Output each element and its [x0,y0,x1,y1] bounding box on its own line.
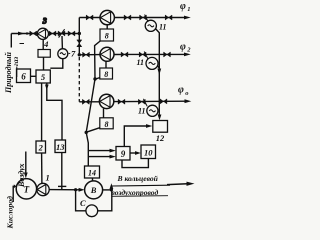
label phi2 [180,41,191,53]
underline воздухопровод [112,195,169,198]
small tick arrow [27,32,31,35]
box 14 [85,166,100,178]
blower branch3 [99,94,113,108]
arrow box9 to box10 [130,152,136,154]
box 8 branch3 [100,118,113,129]
trunk vertical upper (solid) [78,18,80,56]
junction dot main/trunk [78,32,81,35]
svg-text:В: В [90,185,97,195]
blower branch1 [100,10,114,24]
junction dot for recirc [74,188,77,191]
svg-text:11: 11 [138,107,146,116]
junction dot collector/box8-2 [93,77,96,80]
valve bowtie branch3 mid [118,99,125,104]
outlet thick arrow [167,183,188,186]
wire box5 down-left to box2 [41,83,43,141]
valve 1 circle [37,183,49,195]
wire from box9 up to box12 with arrow [124,126,146,147]
wire box6 to box5 [31,75,37,77]
arrowhead into fan B [79,188,85,192]
valve (bowtie) after blower 3 [49,31,56,36]
up arrowhead on recirc vertical [110,183,114,189]
box 8 branch1 [100,29,114,41]
valve bowtie branch1 mid [124,15,131,20]
valve bowtie branch3 right [160,99,167,104]
blower branch2 [100,47,114,61]
svg-text:φ: φ [180,1,186,12]
svg-text:2: 2 [38,143,44,153]
diagonal from box8-2 [95,78,100,80]
burner line valve1 to fan B [49,189,80,191]
trunk vertical lower (dashed) [78,57,80,102]
blower 3 circle [37,28,48,39]
branch3 arrow [185,99,192,103]
box 5 [36,70,50,83]
tee bar on box13 wire [58,185,66,187]
svg-text:8: 8 [105,32,109,41]
control valve branch3 [138,99,145,104]
wire box5 down-right with arrow, L to box13 [47,83,62,140]
diagonal from box8-3 [86,128,99,133]
box 9 [116,147,130,161]
box 6 [17,69,31,83]
valve bowtie branch3 left [82,99,89,104]
actuator 11 branch3 [147,105,158,116]
underline of газ [17,44,24,78]
svg-text:4: 4 [43,39,48,49]
wire regulator7 down and left into box5 [50,59,63,68]
flow arrowhead on main line [18,32,25,36]
fan B circle [85,181,103,199]
label phi1 [180,1,191,13]
wire box13 down to burner line [61,153,63,190]
actuator 11 branch1 [145,20,156,31]
svg-text:7: 7 [71,49,76,59]
tap 2 into box 9 [88,156,110,158]
branch1 pipe [79,17,186,19]
svg-text:3: 3 [42,17,47,26]
box 2 [36,141,46,153]
branch2 arrow [184,53,191,57]
branch2 pipe [79,53,186,55]
svg-text:С: С [80,198,86,208]
svg-text:5: 5 [41,72,46,82]
collector line from boxes 8 [86,41,100,166]
junction dot outlet [110,188,113,191]
link actuator 11-2 to signal line [157,66,159,69]
box 10 [141,145,156,159]
stem box14 to fan B [92,178,94,181]
svg-text:8: 8 [104,70,108,79]
tap 1 into box 9 [88,150,110,152]
junction dot collector/box8-3 [85,131,88,134]
svg-text:13: 13 [56,142,65,152]
label phi0 [178,85,189,97]
stem to box8-2 [105,61,107,68]
valve bowtie branch2 right [164,52,171,57]
valve bowtie branch1 right [165,15,172,20]
svg-text:8: 8 [105,120,109,129]
svg-text:o: o [185,90,189,97]
svg-text:Воздух: Воздух [17,163,26,188]
svg-text:2: 2 [186,47,191,54]
svg-text:12: 12 [156,133,165,143]
svg-text:φ: φ [178,85,184,96]
oxygen feed line with arrow [13,186,14,202]
svg-text:газ: газ [11,57,20,66]
box 13 [55,140,66,153]
regulator 7 circle [58,49,68,59]
box 4 [38,50,50,58]
valve bowtie branch2 left [83,52,90,57]
trunk valve (vertical bowtie) [77,40,82,47]
svg-text:φ: φ [180,41,186,52]
signal line from actuator 11-1 down to box 12 [156,29,160,117]
wire box2 down to valve 1 [41,153,43,183]
valve (bowtie) before trunk junction [68,31,75,36]
valve bowtie branch1 left [86,15,93,20]
svg-text:14: 14 [88,169,96,178]
stem to box8-3 [103,109,105,118]
control valve branch1 [140,15,147,20]
junction dot trunk/branch2 [78,53,81,56]
label 7 [69,52,71,54]
outlet line from fan B [103,189,112,191]
box 8 branch2 [100,68,113,79]
arrowhead into box 12 top [158,115,162,121]
stem from blower 3 to box 4 [42,39,44,49]
valve (bowtie) on main line [30,31,37,36]
svg-text:1: 1 [46,173,50,183]
pump C circle [86,205,98,217]
mixer T circle [16,179,36,199]
stem to box8-1 [106,25,108,29]
natural gas feed vertical line [10,34,12,48]
label: Природный газ [4,51,20,94]
svg-text:Кислород: Кислород [6,196,15,229]
svg-text:10: 10 [144,148,153,158]
outlet bar line [111,184,170,187]
svg-text:6: 6 [21,72,26,82]
feedback loop box9-box10 bottom [122,159,148,168]
svg-text:В кольцевой: В кольцевой [117,174,158,183]
mid arrowhead on signal line [157,69,161,76]
recirculation loop with pump C [76,190,86,211]
main gas line [11,33,79,35]
branch3 pipe [79,100,187,103]
svg-text:1: 1 [187,6,190,13]
valve bowtie branch2 mid [121,52,128,57]
svg-text:11: 11 [137,58,145,67]
wire box4 to box5 [43,57,45,70]
loop from pump C up to outlet [98,190,112,211]
branch1 arrow [184,16,191,20]
box 12 [153,121,168,133]
control valve with slash at 61.5 [58,31,65,36]
actuator 11 branch2 [146,57,158,69]
svg-text:9: 9 [121,149,126,159]
control valve branch2 [139,52,146,57]
stem to regulator 7 [61,36,63,49]
air feed line with arrow [25,152,27,174]
svg-text:11: 11 [159,23,167,32]
